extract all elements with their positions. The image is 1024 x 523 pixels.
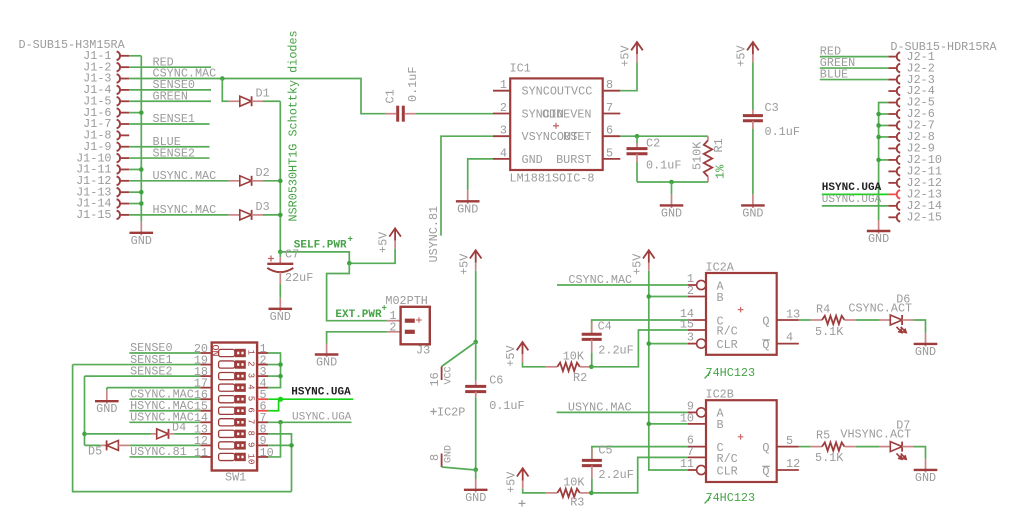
wire +5V bus of IC2 bbox=[649, 271, 688, 470]
junction at D2 cathode bbox=[278, 179, 283, 184]
svg-text:ON: ON bbox=[208, 345, 219, 357]
junction bus at IC2A pin 3 bbox=[647, 341, 652, 346]
diode D4 bbox=[85, 433, 152, 435]
switch SW1 DIP-10 bbox=[212, 343, 257, 471]
svg-text:8: 8 bbox=[246, 430, 256, 435]
svg-text:GND: GND bbox=[915, 345, 936, 359]
svg-text:R3: R3 bbox=[570, 496, 584, 510]
svg-text:8: 8 bbox=[606, 78, 613, 92]
junction at R1 ground tap bbox=[669, 180, 674, 185]
svg-text:GND: GND bbox=[131, 234, 152, 248]
switch SW1 position 5 slider bbox=[219, 396, 235, 403]
svg-text:CSYNC.MAC: CSYNC.MAC bbox=[568, 273, 632, 287]
pin 2 of IC1 bbox=[493, 113, 510, 115]
wire GND bus of J1 bbox=[140, 56, 142, 222]
svg-text:C2: C2 bbox=[646, 137, 660, 151]
pin 1 of IC1 bbox=[493, 90, 510, 92]
ground at SW1 pin 17 bbox=[106, 390, 108, 404]
wire pin to GND bus bbox=[129, 168, 141, 170]
svg-text:EXT.PWR: EXT.PWR bbox=[335, 309, 382, 321]
+5V symbol at SELF.PWR bbox=[389, 228, 401, 236]
pin 19 of SW1 bbox=[200, 364, 211, 366]
svg-text:1: 1 bbox=[246, 350, 256, 355]
wire D2 cathode bbox=[263, 180, 280, 182]
wire SENSE1 loop left vertical bbox=[73, 365, 292, 492]
wire SW1 pin 6 to pin 5 highlighted bbox=[268, 399, 278, 411]
wire USYNC.81 from IC1 pin 3 bbox=[441, 136, 493, 235]
wire R4 to D6 bbox=[856, 319, 880, 321]
svg-text:NSR0530HT1G Schottky diodes: NSR0530HT1G Schottky diodes bbox=[287, 30, 301, 221]
ground below C2/R1 bbox=[671, 194, 673, 208]
svg-text:USYNC.UGA: USYNC.UGA bbox=[822, 194, 882, 206]
svg-text:16: 16 bbox=[428, 372, 442, 386]
resistor R3 10K bbox=[546, 492, 558, 494]
svg-text:5: 5 bbox=[786, 434, 793, 448]
svg-text:B: B bbox=[717, 418, 724, 432]
pin 6 of SW1 bbox=[257, 410, 268, 412]
svg-text:D4: D4 bbox=[172, 421, 186, 435]
LED D6 bbox=[880, 319, 891, 321]
wire CSYNC.MAC from J1-3 to C1 bbox=[129, 79, 385, 114]
wire IC1 pin 4 to ground bbox=[468, 159, 493, 190]
svg-text:SW1: SW1 bbox=[225, 471, 246, 485]
junction HSYNC.UGA highlighted bbox=[278, 397, 283, 402]
wire D3 cathode bbox=[263, 214, 280, 216]
pin 11 of SW1 bbox=[200, 456, 211, 458]
wire IC2A Q pin 13 to R4 bbox=[799, 319, 811, 321]
wire C4 to IC2A pin 14 bbox=[592, 320, 688, 334]
svg-text:SENSE1: SENSE1 bbox=[153, 112, 195, 126]
svg-text:USYNC.81: USYNC.81 bbox=[130, 445, 187, 459]
junction on J1 GND bus bbox=[139, 167, 144, 172]
wire SW1 pin 17 to ground bbox=[107, 387, 201, 389]
wire GREEN to J2-2 bbox=[820, 67, 889, 69]
svg-text:GREEN: GREEN bbox=[153, 89, 188, 103]
capacitor C3 0.1uF bbox=[752, 110, 754, 116]
switch SW1 position 4 slider bbox=[219, 384, 235, 391]
svg-text:HSYNC.UGA: HSYNC.UGA bbox=[822, 182, 882, 194]
wire SW1 pin 8 down to bottom loop bbox=[268, 434, 291, 492]
wire RED bbox=[129, 66, 211, 68]
svg-text:SYNCOUT: SYNCOUT bbox=[522, 85, 572, 99]
svg-text:510K: 510K bbox=[691, 141, 705, 170]
wire J2 ground pin bbox=[879, 136, 889, 138]
resistor R1 510K 1% bbox=[707, 136, 709, 140]
svg-text:0.1uF: 0.1uF bbox=[489, 399, 524, 413]
wire bus to IC2B pin 10 bbox=[649, 423, 688, 425]
svg-text:+5V: +5V bbox=[619, 45, 633, 67]
svg-text:74HC123: 74HC123 bbox=[706, 491, 756, 505]
junction RSET at C2 bbox=[635, 134, 640, 139]
wire SW1 pin 3 to bus bbox=[268, 375, 280, 377]
svg-text:GND: GND bbox=[457, 202, 478, 216]
svg-text:R2: R2 bbox=[573, 371, 587, 385]
power part IC2P pin 16 VCC bbox=[442, 342, 476, 367]
pin 3 of IC1 bbox=[493, 135, 510, 137]
pin 13 of SW1 bbox=[200, 433, 211, 435]
wire pin to GND bus bbox=[129, 191, 141, 193]
svg-text:4: 4 bbox=[500, 146, 507, 160]
svg-text:+5V: +5V bbox=[377, 231, 391, 253]
wire D6 to ground bbox=[913, 320, 925, 333]
svg-text:5.1K: 5.1K bbox=[815, 325, 844, 339]
svg-text:CLR: CLR bbox=[717, 338, 738, 352]
switch SW1 position 1 slider bbox=[219, 349, 235, 356]
wire HSYNC.UGA from SW1 pin 5 highlighted bbox=[268, 398, 353, 400]
wire EXT.PWR to J3 pin 1 bbox=[327, 263, 387, 320]
svg-text:D1: D1 bbox=[256, 86, 270, 100]
capacitor C2 0.1uF bbox=[636, 136, 638, 143]
pin 7 of SW1 bbox=[257, 421, 268, 423]
switch SW1 position 3 slider bbox=[219, 373, 235, 380]
wire C2 bottom bbox=[636, 162, 638, 182]
svg-text:10: 10 bbox=[246, 454, 256, 465]
svg-text:0.1uF: 0.1uF bbox=[646, 159, 681, 173]
svg-text:BLUE: BLUE bbox=[820, 68, 848, 82]
op-amp IC1 LM1881SOIC-8 bbox=[510, 78, 603, 170]
svg-text:IC1: IC1 bbox=[510, 62, 531, 76]
wire pin to GND bus bbox=[129, 112, 141, 114]
wire C2/R1 bottom to ground bbox=[637, 181, 708, 183]
svg-text:IC2A: IC2A bbox=[706, 260, 735, 274]
svg-text:C1: C1 bbox=[384, 89, 398, 103]
wire C1 to IC1 pin 2 bbox=[416, 113, 493, 115]
svg-text:GND: GND bbox=[465, 491, 486, 505]
wire RED to J2-1 bbox=[820, 56, 889, 58]
svg-text:D7: D7 bbox=[896, 419, 910, 433]
switch SW1 position 7 slider bbox=[219, 419, 235, 426]
svg-text:22uF: 22uF bbox=[285, 271, 313, 285]
junction R2/C4 node bbox=[589, 365, 594, 370]
pin 3 of SW1 bbox=[257, 375, 268, 377]
wire GND bus of J2 bbox=[879, 103, 889, 220]
pin 12 of SW1 bbox=[200, 444, 211, 446]
svg-text:8: 8 bbox=[428, 454, 442, 461]
wire CSYNC.MAC to SW1 pin 16 bbox=[129, 398, 200, 400]
origin cross below R3 +5V bbox=[519, 500, 526, 507]
junction R3/C5 node bbox=[589, 491, 594, 496]
svg-text:11: 11 bbox=[680, 457, 694, 471]
pin 18 of SW1 bbox=[200, 375, 211, 377]
wire diode cathode bus down to SELF.PWR node bbox=[279, 101, 281, 252]
svg-text:6: 6 bbox=[246, 407, 256, 412]
name label IC2P bbox=[430, 408, 436, 414]
wire BLUE bbox=[129, 146, 209, 148]
diode D3 bbox=[228, 214, 239, 216]
+5V symbol above C3 bbox=[747, 42, 759, 50]
pin 6 of IC1 bbox=[603, 135, 621, 137]
svg-text:13: 13 bbox=[786, 307, 800, 321]
svg-text:HSYNC.UGA: HSYNC.UGA bbox=[291, 387, 351, 399]
svg-text:C5: C5 bbox=[598, 444, 612, 458]
svg-text:7: 7 bbox=[606, 101, 613, 115]
pin 8 of SW1 bbox=[257, 433, 268, 435]
pin 7 of IC1 bbox=[603, 113, 621, 115]
junction bus at IC2B pin 10 bbox=[647, 422, 652, 427]
wire C7 to ground bbox=[279, 284, 281, 298]
svg-text:GND: GND bbox=[270, 310, 291, 324]
junction on J1 GND bus bbox=[139, 110, 144, 115]
junction at IC2P GND bbox=[473, 467, 478, 472]
diode D2 bbox=[228, 180, 239, 182]
wire R3 node to IC2B pin 7 bbox=[591, 457, 688, 493]
wire IC2P to ground bbox=[475, 470, 477, 479]
svg-text:+5V: +5V bbox=[735, 45, 749, 67]
svg-text:0.1uF: 0.1uF bbox=[765, 125, 800, 139]
wire SELF.PWR node to +5V arrow bbox=[280, 252, 349, 263]
wire J3 pin 2 to ground bbox=[327, 332, 387, 344]
svg-text:J1-15: J1-15 bbox=[76, 208, 111, 222]
svg-text:10K: 10K bbox=[563, 476, 585, 490]
pin 2 of SW1 bbox=[257, 364, 268, 366]
svg-text:4: 4 bbox=[786, 331, 793, 345]
svg-text:1: 1 bbox=[500, 78, 507, 92]
power part IC2P pin 8 GND bbox=[441, 454, 443, 468]
junction USYNC.UGA at SW1 pin 7 bbox=[278, 420, 283, 425]
wire R5 to D7 bbox=[856, 446, 880, 448]
resistor R5 5.1K bbox=[811, 446, 822, 448]
svg-text:SENSE2: SENSE2 bbox=[153, 146, 195, 160]
svg-text:0.1uF: 0.1uF bbox=[406, 67, 420, 102]
wire +5V to R2 bbox=[523, 363, 546, 367]
wire HSYNC.MAC to SW1 pin 15 bbox=[129, 410, 200, 412]
svg-text:R1: R1 bbox=[712, 138, 726, 152]
wire USYNC.MAC bbox=[129, 180, 228, 182]
wire D5 to SW1 pin 12 bbox=[130, 444, 201, 446]
ground below IC2P bbox=[475, 479, 477, 493]
svg-text:5: 5 bbox=[246, 396, 256, 401]
svg-text:GND: GND bbox=[915, 471, 936, 485]
pin 16 of SW1 bbox=[200, 398, 211, 400]
pin 9 of SW1 bbox=[257, 444, 268, 446]
svg-text:GND: GND bbox=[661, 206, 682, 220]
wire IC2B Q pin 5 to R5 bbox=[799, 446, 811, 448]
svg-text:10K: 10K bbox=[563, 349, 585, 363]
junction bus at IC2A pin 2 bbox=[647, 294, 652, 299]
svg-text:GND: GND bbox=[316, 356, 337, 370]
+5V symbol at R3 bbox=[517, 468, 529, 476]
junction at SW1 pin 2 bbox=[278, 362, 283, 367]
diode D1 bbox=[228, 100, 239, 102]
svg-text:2.2uF: 2.2uF bbox=[598, 468, 633, 482]
svg-text:B: B bbox=[717, 291, 724, 305]
resistor R4 5.1K bbox=[811, 319, 822, 321]
wire +5V rail of IC2P bbox=[475, 271, 477, 342]
wire bus to IC2A pin 2 bbox=[649, 296, 688, 298]
pin 17 of SW1 bbox=[200, 387, 211, 389]
svg-text:74HC123: 74HC123 bbox=[706, 366, 756, 380]
svg-text:SENSE2: SENSE2 bbox=[130, 364, 172, 378]
diode D5 bbox=[85, 444, 101, 446]
origin cross of IC1 bbox=[553, 123, 559, 129]
ground symbol of J2 bbox=[878, 220, 880, 234]
svg-text:VCC: VCC bbox=[444, 366, 455, 384]
wire +5V to C3 bbox=[752, 63, 754, 111]
svg-text:J3: J3 bbox=[416, 344, 430, 358]
ground below C3 bbox=[752, 194, 754, 208]
svg-text:USYNC.MAC: USYNC.MAC bbox=[568, 400, 632, 414]
svg-text:+5V: +5V bbox=[504, 471, 518, 493]
wire C4 bottom to R2 bbox=[591, 352, 593, 367]
wire HSYNC.UGA to J2-13 highlighted bbox=[822, 193, 889, 195]
pin 4 of IC1 bbox=[493, 158, 510, 160]
svg-text:12: 12 bbox=[786, 457, 800, 471]
svg-text:2: 2 bbox=[500, 101, 507, 115]
wire C6 to ground rail bbox=[475, 397, 477, 470]
svg-text:+5V: +5V bbox=[630, 253, 644, 275]
svg-text:IC2B: IC2B bbox=[706, 388, 734, 402]
wire C3 to ground bbox=[752, 129, 754, 194]
svg-text:ODDEVEN: ODDEVEN bbox=[542, 108, 592, 122]
junction CSYNC.MAC at D1 branch bbox=[220, 76, 225, 81]
svg-text:R4: R4 bbox=[816, 302, 830, 316]
wire SW1 pin 2 to bus bbox=[268, 364, 280, 366]
wire pin to GND bus bbox=[129, 55, 141, 57]
svg-text:C4: C4 bbox=[598, 319, 612, 333]
wire C5 to IC2B pin 6 bbox=[592, 447, 688, 461]
wire J2 ground pin bbox=[879, 113, 889, 115]
monostable IC2A 74HC123 bbox=[706, 273, 777, 355]
LED D7 bbox=[880, 446, 891, 448]
svg-text:VCC: VCC bbox=[571, 85, 592, 99]
pin 4 of SW1 bbox=[257, 387, 268, 389]
pin 10 of SW1 bbox=[257, 456, 268, 458]
wire SENSE0 to SW1 pin 20 bbox=[129, 352, 200, 354]
svg-text:CLR: CLR bbox=[717, 464, 738, 478]
capacitor C4 2.2uF bbox=[591, 322, 593, 334]
svg-text:D6: D6 bbox=[896, 293, 910, 307]
svg-text:Q: Q bbox=[762, 314, 769, 328]
wire SENSE2 bbox=[129, 157, 209, 159]
ground below C7 bbox=[279, 298, 281, 312]
wire D4 to SW1 pin 13 bbox=[174, 433, 200, 435]
pin 14 of SW1 bbox=[200, 421, 211, 423]
switch SW1 position 9 slider bbox=[219, 442, 235, 449]
wire USYNC.UGA to J2-14 bbox=[822, 205, 889, 207]
pin 20 of SW1 bbox=[200, 352, 211, 354]
svg-text:SELF.PWR: SELF.PWR bbox=[294, 239, 347, 251]
svg-text:USYNC.81: USYNC.81 bbox=[427, 206, 441, 263]
pin 15 of SW1 bbox=[200, 410, 211, 412]
capacitor C6 0.1uF bbox=[475, 381, 477, 387]
capacitor C5 2.2uF bbox=[591, 449, 593, 461]
svg-text:1%: 1% bbox=[714, 164, 728, 179]
wire +5V to R3 bbox=[523, 489, 546, 493]
pin 5 of IC1 bbox=[603, 158, 621, 160]
wire USYNC.MAC to SW1 pin 14 bbox=[129, 421, 200, 423]
wire SENSE2 to SW1 pin 18 bbox=[85, 375, 201, 377]
wire SENSE2 vertical to D4/D5 bbox=[84, 376, 86, 445]
svg-text:3: 3 bbox=[246, 373, 256, 378]
switch SW1 position 2 slider bbox=[219, 361, 235, 368]
+5V symbol at IC2 bus bbox=[643, 250, 655, 258]
wire HSYNC.MAC bbox=[129, 214, 228, 216]
wire CSYNC.MAC to IC2A pin 1 bbox=[557, 284, 688, 286]
wire RSET pin 6 to R1 bbox=[620, 135, 708, 137]
switch SW1 position 10 slider bbox=[219, 453, 235, 460]
svg-text:USYNC.MAC: USYNC.MAC bbox=[153, 169, 217, 183]
wire J2 ground pin bbox=[879, 159, 889, 161]
svg-text:2.2uF: 2.2uF bbox=[598, 344, 633, 358]
svg-text:IC2P: IC2P bbox=[437, 406, 465, 420]
switch SW1 position 6 slider bbox=[219, 407, 235, 414]
wire SENSE0 bbox=[129, 89, 211, 91]
svg-text:R5: R5 bbox=[816, 428, 830, 442]
svg-text:D5: D5 bbox=[88, 445, 102, 459]
svg-text:3: 3 bbox=[500, 124, 507, 138]
svg-text:M02PTH: M02PTH bbox=[385, 294, 427, 308]
junction on J1 GND bus bbox=[139, 201, 144, 206]
pin 8 of IC1 bbox=[603, 90, 621, 92]
svg-text:GND: GND bbox=[96, 402, 117, 416]
wire SW1 pin 7 to pin 10 bbox=[268, 422, 280, 457]
svg-text:J2-15: J2-15 bbox=[907, 211, 942, 225]
junction at D4 branch bbox=[82, 432, 87, 437]
svg-text:C3: C3 bbox=[765, 101, 779, 115]
svg-text:9: 9 bbox=[246, 442, 256, 447]
ground below D6 bbox=[925, 333, 927, 347]
svg-text:BURST: BURST bbox=[556, 153, 591, 167]
wire CSYNC.MAC to D1 anode bbox=[222, 79, 228, 102]
wire USYNC.MAC to IC2B pin 9 bbox=[557, 411, 688, 413]
svg-text:C7: C7 bbox=[285, 248, 299, 262]
junction at SW1 pin 3 bbox=[278, 374, 283, 379]
capacitor C7 22uF polarized bbox=[279, 252, 281, 257]
wire USYNC.UGA from SW1 pin 7 bbox=[268, 421, 351, 423]
wire pin to GND bus bbox=[129, 203, 141, 205]
wire SW1 pin 1 to pins 2-4 bbox=[268, 353, 280, 388]
junction on J2 GND bus bbox=[876, 135, 881, 140]
svg-text:+5V: +5V bbox=[457, 253, 471, 275]
svg-text:6: 6 bbox=[606, 124, 613, 138]
svg-text:C6: C6 bbox=[489, 374, 503, 388]
svg-text:GND: GND bbox=[522, 153, 543, 167]
svg-text:HSYNC.MAC: HSYNC.MAC bbox=[153, 203, 217, 217]
wire C5 bottom to R3 bbox=[591, 479, 593, 493]
svg-text:GND: GND bbox=[444, 445, 455, 463]
wire SENSE1 bbox=[129, 123, 209, 125]
wire IC1 VCC pin 8 to +5V bbox=[620, 63, 637, 91]
ground below D7 bbox=[925, 459, 927, 473]
wire R2 node to IC2A pin 15 bbox=[591, 330, 688, 367]
wire bus to IC2A pin 3 bbox=[649, 343, 688, 345]
capacitor C1 0.1uF bbox=[385, 113, 396, 115]
ground at IC1 pin 4 bbox=[467, 190, 469, 204]
+5V symbol at R2 bbox=[517, 342, 529, 350]
svg-text:GND: GND bbox=[742, 206, 763, 220]
svg-text:Q: Q bbox=[762, 441, 769, 455]
svg-text:USYNC.UGA: USYNC.UGA bbox=[292, 411, 352, 423]
svg-text:2: 2 bbox=[246, 361, 256, 366]
junction at D3 cathode bbox=[278, 213, 283, 218]
wire SENSE1 to SW1 pin 19 bbox=[73, 364, 201, 366]
pin 5 of SW1 bbox=[257, 398, 268, 400]
+5V symbol at IC2P rail bbox=[470, 250, 482, 258]
svg-text:7: 7 bbox=[246, 419, 256, 424]
junction on J1 GND bus bbox=[139, 190, 144, 195]
junction SELF.PWR bbox=[347, 261, 352, 266]
junction diode bus at C7 bbox=[278, 250, 283, 255]
switch SW1 position 8 slider bbox=[219, 430, 235, 437]
junction on J2 GND bus bbox=[876, 112, 881, 117]
svg-text:+5V: +5V bbox=[504, 345, 518, 367]
wire SW1 pin 9 to vertical bbox=[268, 444, 291, 446]
svg-text:LM1881SOIC-8: LM1881SOIC-8 bbox=[510, 172, 595, 186]
svg-text:5.1K: 5.1K bbox=[815, 451, 844, 465]
wire USYNC.81 to SW1 pin 11 bbox=[129, 456, 200, 458]
connector J3 M02PTH bbox=[387, 320, 401, 322]
wire GREEN bbox=[129, 100, 211, 102]
